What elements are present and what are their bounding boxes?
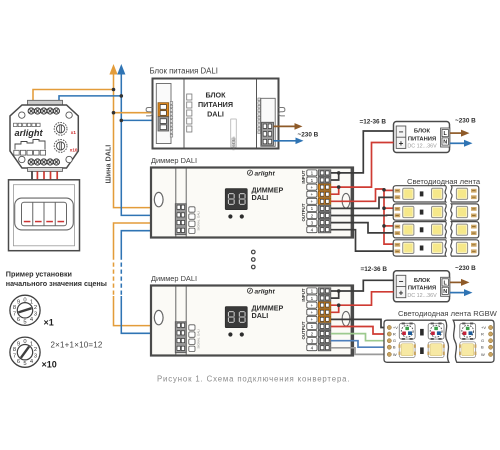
RGBW strip input pads [387, 325, 391, 329]
svg-text:DALI: DALI [252, 193, 269, 202]
DIN clip ear left of PS1 [146, 108, 152, 116]
LED strip 4 solder pads right [471, 243, 477, 247]
dimmer D1 terminal id cells [307, 170, 317, 176]
White LED 3 [460, 342, 476, 358]
svg-text:БЛОК: БЛОК [414, 129, 431, 135]
LED strip 3 segment B [451, 222, 479, 238]
wire DALI bus DA- dimmer1-out to dimmer2 (blue, dashed mid-section) [121, 231, 176, 256]
LED strip 3 solder pads left [395, 225, 401, 229]
junction +V bus strip1 [382, 188, 386, 192]
LED strip 4 resistor [420, 246, 424, 251]
mains terminal block of PS1 (3-pos) [262, 122, 274, 145]
junction bus DA+ / DALI PSU [112, 111, 116, 115]
svg-text:OUTPUT: OUTPUT [301, 203, 306, 221]
svg-text:5: 5 [23, 361, 26, 367]
svg-text:7: 7 [13, 354, 16, 360]
LED strip 2 solder pads left [395, 207, 401, 211]
wire dimmer1 V+ row4 link (red) [331, 187, 339, 194]
LED strip 4 segment B [451, 240, 479, 256]
LED strip 1 solder pads right [471, 189, 477, 193]
RGB LED 3 [460, 323, 476, 339]
wire dimmer1 OUT3 to strip3 (black) [331, 223, 395, 233]
vent windows left column of PS1 [187, 94, 192, 100]
svg-text:arlight: arlight [255, 288, 276, 295]
svg-text:4: 4 [311, 346, 314, 351]
svg-text:INPUT: INPUT [301, 288, 306, 301]
junction dimmer2 V+ [337, 303, 341, 307]
svg-text:DC 12...36V: DC 12...36V [407, 144, 437, 150]
wire PSU1 N mains (blue, arrow) [450, 142, 466, 144]
svg-text:Светодиодная лента RGBW: Светодиодная лента RGBW [398, 309, 498, 318]
svg-text:1: 1 [311, 296, 314, 301]
svg-text:начального значения сцены: начального значения сцены [6, 279, 107, 288]
svg-text:+: + [311, 310, 314, 315]
svg-text:x1: x1 [71, 130, 77, 135]
svg-text:INPUT: INPUT [301, 170, 306, 183]
dimmer D2 arlight logo [247, 288, 252, 293]
wire dimmer2 R channel (red) [331, 327, 387, 335]
svg-text:Блок питания DALI: Блок питания DALI [150, 67, 218, 76]
svg-text:arlight: arlight [15, 128, 44, 138]
wire dimmer1 +V output to LED strip bus (red) [331, 189, 384, 201]
LED strip 3 solder pads right [471, 225, 477, 229]
svg-text:DALI: DALI [252, 311, 269, 320]
wire +V bus for white LED strips (red) [384, 189, 395, 244]
LED strip 4 LED3 [456, 242, 467, 253]
dimmer D2 body [151, 286, 353, 356]
wire PSU1 minus to dimmer1 V- (black) [331, 131, 394, 173]
svg-text:+: + [311, 303, 314, 308]
junction +V bus strip2 [382, 206, 386, 210]
svg-text:3: 3 [311, 220, 314, 225]
dimmer D1 7-segment display [225, 189, 247, 210]
svg-text:1: 1 [311, 289, 314, 294]
dimmer D1 left cap divider [175, 169, 177, 237]
dimmer D1 arlight logo [247, 170, 252, 175]
wire PSU2 minus to dimmer2 V- (black) [331, 280, 394, 291]
LED strip 2 segment B [451, 204, 479, 220]
svg-text:4: 4 [311, 228, 314, 233]
wire scene switch to wall switch rocker 1 (red) [36, 171, 38, 180]
RGBW LED strip segment A [384, 320, 449, 362]
svg-text:5: 5 [23, 319, 26, 325]
wire dimmer1 OUT4 to strip4 (black) [331, 230, 395, 251]
svg-text:3: 3 [34, 312, 37, 318]
module PS1 DALI bus power supply body [153, 79, 279, 149]
svg-text:−: − [399, 277, 404, 286]
LED strip 2 resistor [420, 210, 424, 215]
wire PS1 N to mains (blue, arrow) [274, 140, 298, 142]
wire PSU1 plus to dimmer1 V+ (red) [331, 143, 394, 188]
PSU2 DC terminal block (-/+) [396, 275, 406, 297]
svg-text:B: B [481, 345, 484, 350]
module U1 arlight DALI scene switch (octagon body) [28, 100, 63, 105]
DIN clip ear right of PS1 [279, 108, 285, 116]
svg-text:ПИТАНИЯ: ПИТАНИЯ [198, 100, 233, 109]
dimmer D1 buttons [228, 214, 232, 218]
svg-text:~230 В: ~230 В [455, 118, 476, 125]
node DALI bus DA- arrow (blue, up) [117, 64, 125, 75]
svg-text:G: G [481, 338, 484, 343]
rotary selector x1 on scene switch [54, 122, 67, 135]
wire dimmer2 B channel (blue) [331, 341, 387, 348]
wire dimmer2 G channel (green) [331, 334, 387, 341]
wire scene switch to wall switch (black) [31, 171, 33, 180]
svg-text:2: 2 [311, 213, 314, 218]
svg-text:8: 8 [13, 305, 16, 311]
svg-text:=12-36 В: =12-36 В [360, 119, 387, 126]
wire scene switch to wall switch rocker 3 (red) [50, 171, 52, 180]
svg-text:2: 2 [311, 331, 314, 336]
svg-text:−: − [399, 128, 404, 137]
LED strip 3 LED3 [456, 224, 467, 235]
LED strip 4 LED2 [432, 242, 443, 253]
terminal X2 DA- (gray) of PS1 [158, 117, 169, 131]
svg-text:=12-36 В: =12-36 В [361, 266, 388, 273]
LED strip 1 segment A [393, 186, 446, 202]
svg-text:DALI: DALI [207, 110, 224, 119]
LED strip 4 solder pads left [395, 243, 401, 247]
LED strip 2 segment A [393, 204, 446, 220]
junction +V bus strip3 [382, 224, 386, 228]
dimmer D2 DALI pin indicators [189, 325, 195, 330]
svg-text:Диммер DALI: Диммер DALI [151, 156, 197, 165]
svg-text:N: N [443, 140, 447, 146]
LED strip 2 LED1 [403, 206, 414, 217]
dimmer D2 right mounting hole [342, 311, 350, 326]
svg-text:SIGNAL DALI: SIGNAL DALI [197, 211, 201, 231]
module S1 wall switch (4-gang) [9, 180, 80, 251]
svg-text:ПИТАНИЯ: ПИТАНИЯ [408, 136, 436, 142]
divider right of PS1 [256, 80, 258, 148]
bottom connector bar of scene switch [28, 168, 63, 172]
dimmer D1 body [151, 168, 353, 238]
dimmer D1 screw terminal blocks (right) [318, 170, 331, 176]
svg-text:3: 3 [311, 338, 314, 343]
LED strip 1 LED3 [456, 188, 467, 199]
dimmer D1 left mounting hole [154, 192, 163, 206]
svg-text:6: 6 [17, 359, 20, 365]
dimmer D2 right end bar [351, 286, 354, 355]
dimmer D1 DALI pin indicators [189, 207, 195, 212]
wire dimmer2 W channel (gray) [331, 348, 387, 355]
svg-text:2: 2 [34, 347, 37, 353]
dimmer D1 right mounting hole [342, 193, 350, 208]
White LED 1 [399, 342, 415, 358]
left DIN housing of PS1 [156, 84, 171, 144]
RGBW strip resistor top [420, 329, 424, 336]
module PSU2 12-36V power supply body [394, 271, 450, 302]
screw terminals bottom row of scene switch [28, 159, 34, 165]
module PSU1 12-36V power supply body [394, 122, 450, 153]
LED strip 3 LED2 [432, 224, 443, 235]
svg-text:DC 12...36V: DC 12...36V [407, 293, 437, 299]
svg-text:+: + [399, 139, 404, 148]
White LED 2 [428, 342, 444, 358]
svg-text:БЛОК: БЛОК [414, 278, 431, 284]
svg-text:+: + [311, 192, 314, 197]
divider left of PS1 [183, 80, 185, 148]
wire dimmer2 +V to RGBW strip (black) [331, 319, 387, 327]
svg-text:+: + [311, 185, 314, 190]
junction dimmer1 V- [337, 171, 341, 175]
wire dimmer1 V- row2 link (black) [331, 173, 339, 180]
terminal X1 DA+ (orange) of PS1 [158, 103, 169, 117]
junction bus DA+ / scene switch [112, 88, 116, 92]
PSU1 DC terminal block (-/+) [396, 126, 406, 148]
svg-text:Power Input: Power Input [232, 136, 236, 150]
LED strip 2 LED3 [456, 206, 467, 217]
LED strip 1 LED2 [432, 188, 443, 199]
LED strip 2 solder pads right [471, 207, 477, 211]
svg-text:ПИТАНИЯ: ПИТАНИЯ [408, 286, 436, 292]
red position marks on wall switch rockers [24, 221, 31, 223]
svg-text:W: W [393, 352, 397, 357]
DIP marks row on scene switch [14, 123, 18, 126]
rotary dial scene units (set to 2) [10, 295, 40, 325]
right DIN housing of PS1 [261, 98, 275, 146]
svg-text:×1: ×1 [44, 318, 54, 328]
rotary selector x10 on scene switch [54, 140, 67, 153]
svg-text:1: 1 [311, 324, 314, 329]
svg-text:+: + [399, 288, 404, 297]
dimmer D2 DALI terminal block (left) [175, 322, 186, 353]
svg-text:+V: +V [481, 325, 486, 330]
dimmer D2 terminal id cells [307, 288, 317, 294]
wire scene switch to wall switch rocker 2 (red) [43, 171, 45, 180]
wire dimmer2 V- row2 link (black) [331, 291, 339, 298]
screw pin column of PS1 left [170, 102, 173, 105]
LED strip 3 segment A [393, 222, 446, 238]
svg-text:G: G [393, 338, 396, 343]
wire DALI bus DA- vertical (blue) into dimmer1 DALI-in [121, 74, 176, 216]
svg-text:OUTPUT: OUTPUT [301, 321, 306, 339]
LED strip 1 resistor [420, 191, 424, 196]
rotary dial scene tens (set to 1) [10, 337, 40, 367]
LED strip 1 LED1 [403, 188, 414, 199]
LED strip 2 LED2 [432, 206, 443, 217]
wire bus DA- to DALI PSU (blue) [121, 119, 159, 121]
svg-text:7: 7 [13, 312, 16, 318]
svg-text:B: B [393, 345, 396, 350]
RGB LED 2 [428, 323, 444, 339]
svg-text:~230 В: ~230 В [298, 132, 319, 139]
wire dimmer1 OUT2 to strip2 (black) [331, 214, 395, 216]
wire scene-switch DA+ to bus (orange) [33, 90, 114, 103]
junction bus DA- / DALI PSU [120, 119, 124, 123]
svg-text:8: 8 [13, 347, 16, 353]
wire PSU2 N mains (blue, arrow) [450, 292, 466, 294]
svg-text:arlight: arlight [255, 170, 276, 177]
node DALI bus DA+ arrow (orange, up) [109, 64, 117, 75]
LED strip 1 segment B [451, 186, 479, 202]
rocker dividers of wall switch [33, 202, 56, 225]
svg-text:1: 1 [311, 178, 314, 183]
LED strip 3 LED1 [403, 224, 414, 235]
RGB LED 1 [399, 323, 415, 339]
svg-text:R: R [393, 332, 396, 337]
LED strip 4 LED1 [403, 242, 414, 253]
svg-text:1: 1 [311, 171, 314, 176]
svg-text:БЛОК: БЛОК [205, 91, 226, 100]
svg-text:Светодиодная лента: Светодиодная лента [407, 177, 481, 186]
power-input mini block of PS1 [231, 119, 236, 147]
dimmer D2 left mounting hole [154, 310, 163, 324]
node continuation dots (more dimmers) [252, 250, 256, 254]
junction dimmer1 V+ [337, 185, 341, 189]
LED strip 1 solder pads left [395, 189, 401, 193]
LED strip 4 segment A [393, 240, 446, 256]
svg-text:Пример установки: Пример установки [6, 269, 72, 278]
svg-text:1: 1 [311, 206, 314, 211]
svg-text:3: 3 [34, 354, 37, 360]
junction dimmer2 V- [337, 289, 341, 293]
junction bus DA- / scene switch [120, 94, 124, 98]
svg-text:2: 2 [34, 305, 37, 311]
svg-text:R: R [481, 332, 484, 337]
svg-text:×10: ×10 [42, 360, 57, 370]
screw pin column of PS1 right [258, 98, 261, 101]
dimmer D2 screw terminal blocks (right) [318, 288, 331, 294]
svg-text:+: + [311, 317, 314, 322]
wire PS1 L to mains (brown, arrow) [274, 125, 297, 127]
svg-text:N: N [443, 289, 447, 295]
svg-text:2×1+1×10=12: 2×1+1×10=12 [51, 341, 103, 350]
LED strip 3 resistor [420, 227, 424, 232]
dimmer D1 DALI terminal block (left) [175, 204, 186, 235]
screw terminals top row of scene switch [28, 108, 34, 114]
wire DALI bus DA+ dimmer1-out to dimmer2 (orange, dashed mid-section) [114, 223, 176, 256]
wire scene switch to wall switch rocker 4 (red) [56, 171, 58, 180]
svg-text:x10: x10 [70, 148, 78, 153]
wire bus DA+ to DALI PSU (orange) [114, 112, 160, 114]
wire DALI bus DA+ vertical (orange) into dimmer1 DALI-in [114, 74, 176, 208]
dimmer D2 7-segment display [225, 307, 247, 328]
wire PSU1 L mains (brown, arrow) [450, 132, 463, 134]
svg-text:Диммер DALI: Диммер DALI [151, 274, 197, 283]
svg-text:SIGNAL DALI: SIGNAL DALI [197, 329, 201, 349]
wire PSU2 L mains (brown, arrow) [450, 281, 463, 283]
dimmer D1 right end bar [351, 168, 354, 237]
scene staircase icon on scene switch [15, 140, 45, 150]
PSU1 mains terminal block (L/N) [441, 128, 450, 147]
svg-text:6: 6 [17, 317, 20, 323]
PSU2 mains terminal block (L/N) [441, 277, 450, 296]
RGBW strip resistor bottom [420, 347, 424, 354]
dimmer D2 left cap divider [175, 287, 177, 355]
RGBW LED strip segment B [453, 320, 494, 362]
wire PSU2 plus to dimmer2 V+ (red) [331, 292, 394, 305]
svg-text:+: + [311, 199, 314, 204]
wire dimmer1 OUT1 to strip1 (black) [331, 197, 395, 208]
wire dimmer2 V+ row4 link (red) [331, 305, 339, 312]
svg-text:Шина DALI: Шина DALI [103, 145, 112, 184]
mounting holes of scene switch [19, 112, 25, 118]
dimmer D2 buttons [228, 332, 232, 336]
svg-text:~230 В: ~230 В [455, 265, 476, 272]
svg-text:W: W [481, 352, 485, 357]
wire scene-switch DA- to bus (blue) [59, 96, 121, 102]
svg-text:+V: +V [393, 325, 398, 330]
svg-text:Рисунок 1. Схема подключения к: Рисунок 1. Схема подключения конвертера. [157, 375, 350, 384]
